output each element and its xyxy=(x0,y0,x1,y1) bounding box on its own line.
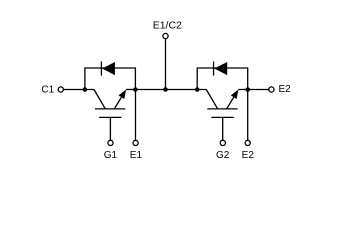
wire E1 bottom lead xyxy=(135,90,137,141)
wire C1 lead xyxy=(63,89,94,91)
wire Q1 emitter to node B xyxy=(126,89,135,91)
wire left diode branch xyxy=(85,68,135,90)
terminal E2 circle xyxy=(269,87,274,92)
svg-text:G1: G1 xyxy=(104,150,118,161)
transistor Q1 gate bar xyxy=(99,116,121,118)
node A junction dot xyxy=(83,87,88,92)
wire G2 gate lead xyxy=(222,117,224,140)
wire Q2 emitter diagonal xyxy=(227,97,234,109)
terminal G2 circle xyxy=(220,140,225,145)
transistor Q2 emitter arrowhead xyxy=(231,90,239,100)
terminal E2 bottom circle xyxy=(245,140,250,145)
wire G1 gate lead xyxy=(109,117,111,140)
diode D2 triangle xyxy=(214,62,227,75)
wire right diode branch xyxy=(197,68,248,90)
wire Q2 emitter to node B2 xyxy=(238,89,247,91)
svg-text:E1: E1 xyxy=(130,150,143,161)
svg-text:E1/C2: E1/C2 xyxy=(153,19,182,31)
wire node B2 to E2 terminal xyxy=(248,89,269,91)
node B junction dot xyxy=(133,87,138,92)
terminal E1/C2 circle xyxy=(163,33,168,38)
node C center junction dot xyxy=(163,87,168,92)
transistor Q1 emitter arrowhead xyxy=(119,90,127,100)
wire E2 bottom lead xyxy=(247,90,249,141)
svg-text:C1: C1 xyxy=(41,85,54,96)
transistor Q2 body bar xyxy=(207,108,237,110)
terminal E1 circle xyxy=(133,140,138,145)
wire main bus node B to node A2 xyxy=(135,89,206,91)
terminal G1 circle xyxy=(108,140,113,145)
svg-text:G2: G2 xyxy=(216,150,230,161)
transistor Q1 body bar xyxy=(95,108,125,110)
diode D1 triangle xyxy=(102,62,115,75)
diode D2 cathode bar xyxy=(213,62,215,76)
svg-text:E2: E2 xyxy=(279,84,292,95)
node A2 junction dot xyxy=(195,87,200,92)
terminal C1 circle xyxy=(58,87,63,92)
wire Q1 emitter diagonal xyxy=(114,97,121,109)
transistor Q2 gate bar xyxy=(211,116,233,118)
node B2 junction dot xyxy=(245,87,250,92)
wire Q2 collector diagonal xyxy=(206,90,218,110)
wire Q1 collector diagonal xyxy=(94,90,106,110)
svg-text:E2: E2 xyxy=(242,150,255,161)
diode D1 cathode bar xyxy=(100,62,102,76)
wire E1/C2 vertical lead xyxy=(165,36,167,90)
